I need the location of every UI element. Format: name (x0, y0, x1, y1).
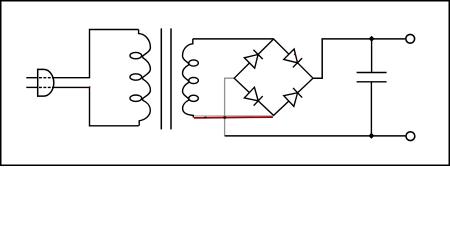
red corner artifact at plug bottom corner (89, 86, 90, 87)
junction node bottom at capacitor (368, 133, 374, 139)
capacitor C1 top plate (357, 72, 387, 74)
plug P1 prong top (26, 77, 37, 79)
plug P1 prong bottom (26, 86, 37, 88)
transformer T1 primary winding (130, 30, 150, 126)
wire gray secondary bottom to bridge AC node bottom (194, 115, 273, 117)
output terminal plus (406, 34, 415, 43)
wire bottom DC rail (225, 135, 406, 137)
capacitor C1 top lead (371, 39, 373, 73)
output terminal minus (406, 132, 415, 141)
junction dot where gray return wire crosses red net (224, 116, 226, 118)
plug P1 dashed contact top (39, 77, 51, 79)
diode D1 (left vertex to top vertex) triangle (244, 54, 258, 68)
diode D4 (bottom vertex to right vertex) triangle (284, 93, 298, 107)
capacitor C1 bottom plate (357, 81, 387, 83)
plug P1 body (38, 69, 54, 96)
border frame (1, 1, 450, 166)
diode D2 (top vertex to right vertex) triangle (284, 49, 298, 63)
capacitor C1 bottom lead (370, 82, 372, 136)
plug P1 dashed contact bottom (39, 86, 51, 88)
junction dot artifact on red net (204, 117, 206, 119)
red artifact inside diode D2 (294, 54, 296, 56)
diode D3 (left vertex to bottom vertex) triangle (244, 87, 258, 101)
diode D4 cathode bar (293, 88, 302, 98)
junction node top at capacitor (369, 36, 375, 42)
diode D2 cathode bar (293, 58, 302, 67)
diode D1 cathode bar (253, 50, 262, 59)
wire red highlighted net secondary bottom to bridge (194, 116, 273, 119)
diode D3 cathode bar (254, 96, 263, 106)
wire secondary top rail to bridge AC node top (193, 38, 274, 40)
transformer T1 core line right (170, 28, 172, 129)
bridge rectifier diamond (234, 39, 313, 115)
wire plug bottom to primary bottom rail (52, 87, 139, 125)
transformer T1 core line left (160, 28, 162, 129)
transformer T1 secondary winding (183, 39, 199, 118)
wire gray bridge minus node: left vertex to bottom rail (225, 78, 235, 135)
wire bridge plus node: right vertex up to top DC rail (313, 39, 405, 78)
wire plug top to primary top rail (52, 30, 139, 78)
